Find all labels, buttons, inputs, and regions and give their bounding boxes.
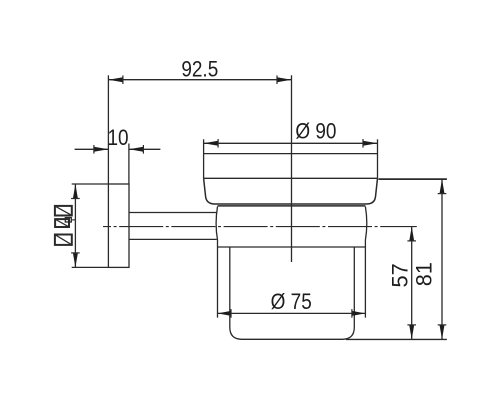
arm top edge	[129, 212, 217, 214]
svg-text:92.5: 92.5	[181, 58, 218, 81]
glass rim left wall with Ø75 extension	[216, 207, 217, 318]
svg-text:57: 57	[388, 263, 413, 287]
dimension 10	[75, 144, 161, 185]
screw symbol top	[55, 206, 72, 216]
holder ring outline	[204, 139, 378, 178]
glass body	[230, 247, 354, 339]
holder lower bowl	[204, 178, 378, 204]
glass rim top edge	[218, 205, 366, 207]
svg-text:10: 10	[107, 127, 128, 150]
svg-text:Ø 90: Ø 90	[295, 121, 336, 144]
screw symbol bottom	[55, 235, 72, 245]
dimension 92.5	[108, 75, 291, 184]
left vertical dimension (plate height)	[72, 184, 109, 267]
centerline vertical (cup axis)	[291, 75, 293, 262]
centerline horizontal (arm axis)	[103, 226, 417, 228]
arm bottom edge	[129, 238, 217, 240]
dimension Ø90	[204, 142, 378, 144]
screw symbol middle	[55, 218, 75, 227]
glass rim bottom edge	[218, 246, 366, 248]
svg-text:81: 81	[412, 262, 437, 286]
dimension 81	[346, 179, 447, 339]
dimension 57	[411, 227, 413, 340]
wall plate	[108, 184, 129, 267]
dimension Ø75	[218, 312, 366, 314]
svg-text:Ø 75: Ø 75	[271, 291, 312, 314]
glass rim right wall with Ø75 extension	[365, 207, 366, 318]
